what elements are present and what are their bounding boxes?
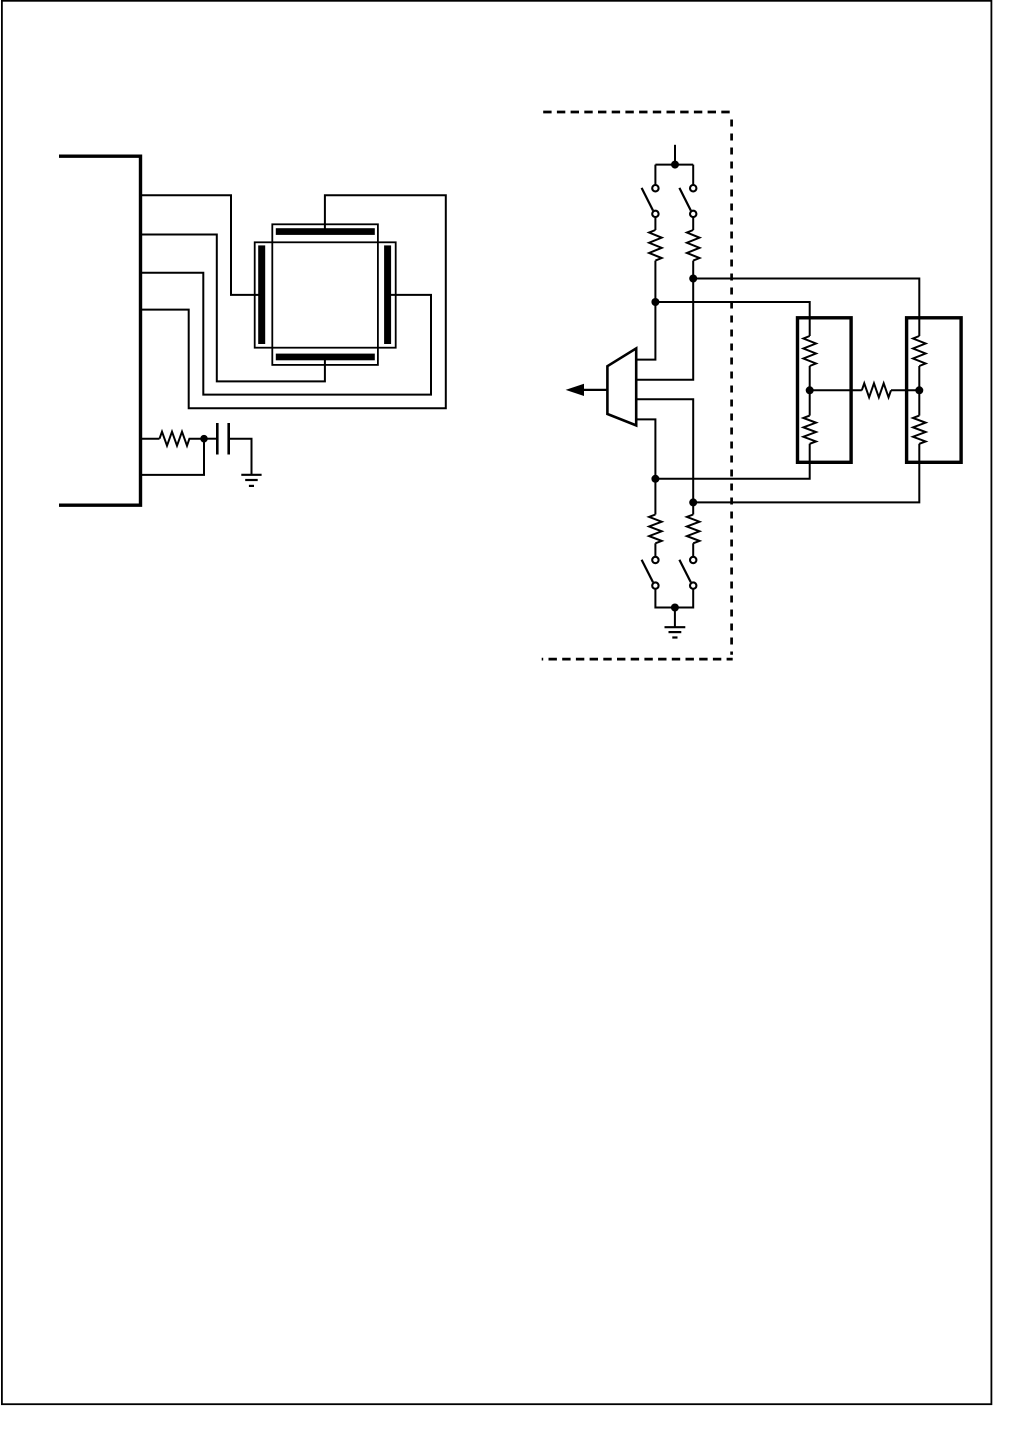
wire PENIRQ pin to resistor R1 [141,438,160,440]
node C junction dot [689,275,697,283]
node B junction dot [651,298,659,306]
wire VDD rail [655,164,693,166]
wire switch S4 to ground rail [675,589,693,608]
wire switch S1 to resistor R2 [654,217,656,230]
wire X+ pin to left electrode [141,195,260,295]
resistor R9 [913,416,926,444]
right network box (touch panel Y model) [907,318,962,463]
wire node F to resistor R10 [810,389,862,391]
wire node G to resistor R9 [918,390,920,415]
touch screen layer (Y plate, wide rectangle) [255,242,396,347]
controller IC U1 (partial outline) [59,156,141,505]
wire resistor R3 to node C [692,261,694,279]
wire mux input 4 to node E [636,419,655,478]
resistor R6 [803,336,816,366]
node D junction dot [689,498,697,506]
wire X- pin to right electrode [141,273,432,395]
right electrode bar [384,245,391,344]
wire rail to switch S1 [654,165,656,185]
node GND junction dot [671,604,679,612]
left network box (touch panel X model) [798,318,852,463]
resistor R4 [649,515,662,544]
wire switch S3 to ground rail [655,589,675,608]
wire resistor R10 to node G [891,389,919,391]
wire node F to resistor R7 [809,390,811,415]
ground GND2 [665,627,686,637]
node A junction dot [200,435,208,443]
wire resistor R4 to switch S3 [654,543,656,556]
node F junction dot [806,386,814,394]
wire rail to switch S2 [692,165,694,185]
top electrode bar [276,228,375,235]
wire node A to AUX pin [141,439,205,475]
resistor R7 [803,416,816,444]
resistor R3 [687,230,700,261]
wire resistor R2 to node B [654,261,656,302]
mux output wire [582,389,607,391]
bottom electrode bar [276,354,375,361]
resistor R2 [649,230,662,261]
switch S1 [642,185,659,217]
dashed IC boundary box [542,112,733,659]
capacitor C1 [217,423,228,455]
wire Y+ pin to bottom electrode [141,235,325,382]
resistor R5 [687,515,700,544]
resistor R8 [913,336,926,366]
wire node B to left network box top [655,302,809,336]
wire node C to right network box top [693,279,919,337]
left electrode bar [258,245,265,344]
wire node D to resistor R5 [692,502,694,514]
mux output arrowhead [566,384,584,396]
wire capacitor C1 to ground [229,439,252,475]
wire resistor R8 to node G [918,366,920,390]
wire node D to right network box bottom [693,444,919,503]
wire node A to capacitor C1 [204,438,217,440]
wire node E to left network box bottom [655,444,809,479]
wire node C to mux input 2 [636,279,693,380]
wire node B to mux input 1 [636,302,655,360]
resistor R1 [160,432,205,446]
switch S4 [679,557,696,589]
wire switch S2 to resistor R3 [692,217,694,230]
ground GND1 [241,475,261,486]
node VDD junction dot [671,161,679,169]
wire Y- pin to top electrode [141,195,446,408]
wire node E to resistor R4 [654,479,656,515]
node G junction dot [915,386,923,394]
switch S3 [642,557,659,589]
wire mux input 3 to node D [636,399,693,502]
touch screen layer (X plate, tall rectangle) [272,224,378,365]
resistor R10 [862,383,891,397]
node E junction dot [651,475,659,483]
wire resistor R5 to switch S4 [692,543,694,556]
mux U2 [607,348,636,425]
switch S2 [679,185,696,217]
VDD supply stub [674,145,676,165]
wire resistor R6 to node F [809,366,811,390]
wire ground stub [674,608,676,628]
